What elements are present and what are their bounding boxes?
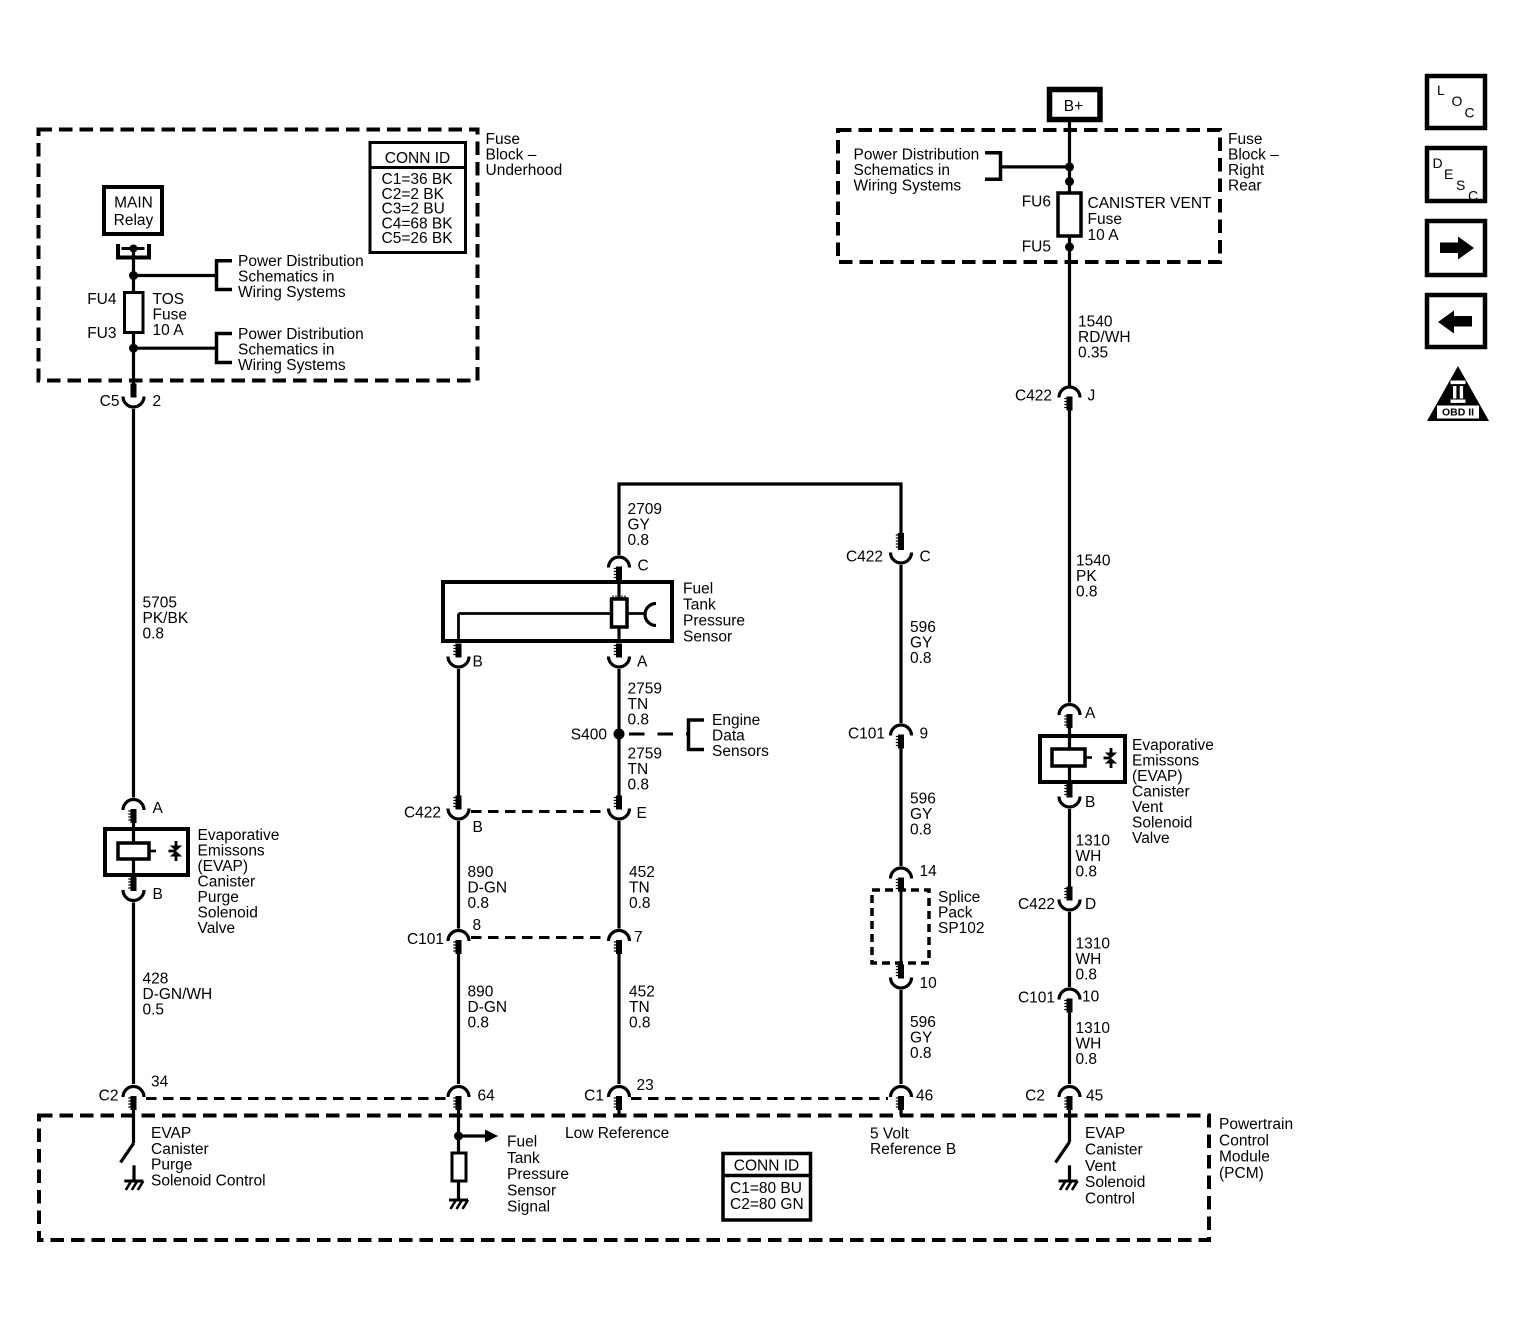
svg-text:Solenoid: Solenoid [1085, 1174, 1145, 1191]
svg-text:Block –: Block – [1228, 147, 1279, 164]
svg-text:(EVAP): (EVAP) [198, 858, 249, 875]
svg-text:EVAP: EVAP [1085, 1125, 1125, 1142]
svg-text:E: E [637, 805, 647, 822]
label: 1310 WH 0.8 (3) [1076, 1020, 1111, 1068]
wire: 23 into PCM (low reference) [617, 1110, 620, 1116]
svg-text:Emissons: Emissons [198, 843, 265, 860]
icon: forward arrow box [1427, 221, 1485, 275]
svg-text:C: C [920, 549, 931, 566]
svg-text:GY: GY [910, 806, 932, 823]
svg-text:Purge: Purge [151, 1157, 192, 1174]
relay contact symbol [118, 244, 149, 258]
svg-text:Wiring Systems: Wiring Systems [238, 284, 346, 301]
wire: 1540 PK (C422-J to vent solenoid A) [1068, 411, 1071, 703]
vent solenoid control driver switch [1056, 1110, 1070, 1181]
svg-text:C101: C101 [407, 931, 444, 948]
svg-text:Canister: Canister [1132, 784, 1190, 801]
ground - vent driver [1059, 1181, 1078, 1190]
svg-text:8: 8 [473, 917, 482, 934]
svg-text:GY: GY [910, 1030, 932, 1047]
svg-text:EVAP: EVAP [151, 1125, 191, 1142]
svg-text:0.8: 0.8 [910, 1045, 932, 1062]
svg-text:MAIN: MAIN [114, 195, 153, 212]
reference bracket 1 [217, 261, 233, 290]
wire: 1540 RD/WH (fuse to C422-J) [1068, 236, 1071, 386]
ground - sensor signal [449, 1200, 468, 1209]
svg-text:10 A: 10 A [1088, 227, 1120, 244]
svg-text:WH: WH [1076, 848, 1102, 865]
svg-text:C1: C1 [584, 1088, 604, 1105]
svg-text:Tank: Tank [507, 1150, 540, 1167]
wire: 890 D-GN (sensor B to C422-B) [457, 669, 460, 796]
svg-text:46: 46 [916, 1088, 933, 1105]
label: Engine Data Sensors [712, 712, 769, 760]
wire: relay to junction [132, 250, 135, 276]
svg-text:Evaporative: Evaporative [1132, 737, 1214, 754]
svg-text:0.8: 0.8 [143, 626, 165, 643]
svg-text:2759: 2759 [628, 681, 662, 698]
label: 2759 TN 0.8 (upper) [628, 681, 662, 729]
wire: junction to reference bracket 1 [134, 274, 217, 277]
icon: OBD II symbol [1427, 366, 1489, 421]
wire: 452 TN (C101-7 to PCM C1-23) [617, 954, 620, 1084]
ground - purge driver [124, 1181, 143, 1190]
svg-text:10: 10 [920, 975, 938, 992]
label: EVAP Canister Purge Solenoid Control [151, 1125, 266, 1189]
wire: 5705 PK/BK (C5 to purge solenoid A) [132, 409, 135, 798]
reference bracket 2 [217, 334, 233, 363]
svg-text:Fuel: Fuel [683, 581, 713, 598]
svg-text:(EVAP): (EVAP) [1132, 768, 1183, 785]
svg-text:SP102: SP102 [938, 920, 985, 937]
label: 1310 WH 0.8 (1) [1076, 833, 1111, 881]
svg-text:0.8: 0.8 [910, 650, 932, 667]
svg-text:C2=80 GN: C2=80 GN [730, 1196, 804, 1213]
svg-text:Vent: Vent [1132, 799, 1164, 816]
svg-text:Schematics in: Schematics in [238, 269, 334, 286]
svg-text:Wiring Systems: Wiring Systems [854, 178, 962, 195]
connector C422 pin B [404, 796, 483, 837]
connector C422 pin C [846, 533, 931, 566]
connector pin 10 - splice pack [891, 965, 938, 993]
svg-text:452: 452 [629, 864, 655, 881]
svg-text:B: B [473, 654, 483, 671]
svg-text:0.8: 0.8 [468, 895, 490, 912]
svg-text:PK: PK [1076, 568, 1097, 585]
wire: top run from sensor C up and across to C422-C [618, 483, 903, 556]
svg-text:Valve: Valve [198, 920, 236, 937]
svg-text:0.8: 0.8 [629, 1015, 651, 1032]
svg-text:Fuel: Fuel [507, 1134, 537, 1151]
wire: fuse to junction 2 [132, 333, 135, 349]
svg-text:D: D [1085, 896, 1096, 913]
dashed connector link C1: 23 to 46 [631, 1097, 888, 1100]
label: 890 D-GN 0.8 (upper) [468, 864, 508, 912]
junction node below FU5 [1065, 243, 1074, 252]
svg-text:Low Reference: Low Reference [565, 1125, 669, 1142]
wire: 596 GY (splice 10 to PCM 46) [899, 990, 902, 1084]
label: Fuse Block - Underhood [486, 131, 563, 179]
label: Fuel Tank Pressure Sensor Signal [507, 1134, 569, 1216]
junction node above FU4 [129, 271, 138, 280]
svg-text:5705: 5705 [143, 595, 177, 612]
label: 890 D-GN 0.8 (lower) [468, 984, 508, 1032]
svg-text:Wiring Systems: Wiring Systems [238, 357, 346, 374]
powertrain control module (dashed box) [39, 1116, 1209, 1241]
svg-text:Rear: Rear [1228, 178, 1262, 195]
connector C2 pin 34 (PCM) [99, 1074, 169, 1111]
svg-text:Sensors: Sensors [712, 743, 769, 760]
fuel tank pressure sensor box [443, 580, 672, 641]
svg-text:Control: Control [1085, 1191, 1135, 1208]
svg-text:C: C [638, 558, 649, 575]
dashed connector link C2: 34 to 64 [146, 1097, 446, 1100]
label: 2759 TN 0.8 (lower) [628, 746, 662, 794]
label: 1310 WH 0.8 (2) [1076, 936, 1111, 984]
svg-text:0.8: 0.8 [468, 1015, 490, 1032]
label: 5 Volt Reference B [870, 1126, 956, 1159]
wire: 2759 TN (sensor A to S400) [617, 669, 620, 734]
label: 452 TN 0.8 (upper) [629, 864, 655, 912]
splice S400 [571, 727, 625, 744]
svg-text:Fuse: Fuse [1228, 131, 1262, 148]
wire: 596 GY (C101-9 to splice pack 14) [899, 749, 902, 867]
svg-text:2: 2 [153, 393, 162, 410]
junction node - sensor signal [454, 1132, 463, 1141]
svg-text:S400: S400 [571, 727, 608, 744]
svg-text:64: 64 [478, 1088, 496, 1105]
svg-text:2759: 2759 [628, 746, 662, 763]
fuse CANISTER VENT 10A (FU6/FU5) [1022, 193, 1212, 256]
svg-text:Schematics in: Schematics in [238, 342, 334, 359]
label: 452 TN 0.8 (lower) [629, 984, 655, 1032]
svg-text:B: B [153, 886, 163, 903]
svg-text:596: 596 [910, 619, 936, 636]
svg-text:FU3: FU3 [87, 325, 116, 342]
svg-text:C5=26 BK: C5=26 BK [382, 230, 454, 247]
svg-text:TN: TN [629, 999, 650, 1016]
svg-text:0.8: 0.8 [1076, 1051, 1098, 1068]
svg-text:(PCM): (PCM) [1219, 1165, 1264, 1182]
svg-text:Tank: Tank [683, 597, 716, 614]
dashed connector link C422: B to E [471, 810, 607, 813]
label: Powertrain Control Module (PCM) [1219, 1116, 1293, 1182]
connector B - sensor output [448, 644, 483, 671]
svg-text:0.8: 0.8 [628, 532, 650, 549]
CONN ID table (underhood) [370, 143, 466, 253]
svg-text:Canister: Canister [198, 874, 256, 891]
svg-text:TN: TN [628, 761, 649, 778]
connector C1 pin 23 (PCM) [584, 1077, 654, 1110]
svg-text:Control: Control [1219, 1132, 1269, 1149]
svg-text:GY: GY [910, 635, 932, 652]
svg-text:Power Distribution: Power Distribution [854, 147, 980, 164]
icon: back arrow box [1427, 295, 1485, 347]
svg-text:C422: C422 [1018, 896, 1055, 913]
svg-text:Fuse: Fuse [1088, 211, 1122, 228]
connector C - fuel tank pressure sensor [609, 557, 649, 581]
EVAP canister vent solenoid valve [1040, 728, 1125, 782]
svg-text:Valve: Valve [1132, 830, 1170, 847]
connector B - purge solenoid [123, 877, 163, 903]
svg-text:TN: TN [628, 696, 649, 713]
label: Evaporative Emissons (EVAP) Canister Purge Solenoid Valve [198, 827, 280, 937]
svg-text:A: A [153, 800, 164, 817]
svg-text:E: E [1444, 166, 1453, 182]
svg-text:34: 34 [151, 1074, 169, 1091]
svg-text:1540: 1540 [1076, 553, 1111, 570]
wire: junction 2 to reference bracket 2 [134, 347, 217, 350]
svg-text:Power Distribution: Power Distribution [238, 326, 364, 343]
svg-text:Vent: Vent [1085, 1158, 1117, 1175]
fuse TOS 10A (FU4/FU3) [87, 291, 187, 342]
connector C5 pin 2 [100, 384, 161, 411]
label: 596 GY 0.8 (2) [910, 791, 936, 839]
svg-text:7: 7 [634, 929, 643, 946]
CONN ID table (PCM) [723, 1154, 811, 1221]
svg-text:0.8: 0.8 [1076, 967, 1098, 984]
svg-text:A: A [637, 654, 648, 671]
svg-text:C101: C101 [848, 726, 885, 743]
svg-text:2709: 2709 [628, 501, 662, 518]
wire: 2759 TN (S400 to C422-E) [617, 734, 620, 796]
purge solenoid control driver switch [121, 1110, 135, 1181]
svg-text:1540: 1540 [1078, 314, 1113, 331]
connector C422 pin D [1018, 887, 1096, 914]
wire: 1310 WH (vent B to C422-D) [1068, 809, 1071, 887]
svg-text:0.8: 0.8 [628, 712, 650, 729]
connector C2 pin 45 (PCM) [1025, 1087, 1103, 1111]
connector C101 pin 7 [609, 929, 643, 954]
svg-text:Splice: Splice [938, 889, 980, 906]
svg-text:Canister: Canister [1085, 1141, 1143, 1158]
connector C422 pin E [609, 796, 647, 823]
wire: 64 into PCM [457, 1110, 460, 1136]
svg-text:Underhood: Underhood [486, 162, 563, 179]
svg-text:890: 890 [468, 864, 494, 881]
svg-text:WH: WH [1076, 1036, 1102, 1053]
svg-text:A: A [1085, 705, 1096, 722]
svg-text:Relay: Relay [114, 212, 154, 229]
svg-text:L: L [1437, 82, 1445, 98]
connector pin 14 - splice pack [891, 863, 938, 892]
svg-text:Schematics in: Schematics in [854, 162, 950, 179]
svg-text:PK/BK: PK/BK [143, 610, 189, 627]
svg-text:23: 23 [637, 1077, 654, 1094]
svg-text:1310: 1310 [1076, 833, 1111, 850]
svg-text:C101: C101 [1018, 990, 1055, 1007]
svg-text:Power Distribution: Power Distribution [238, 253, 364, 270]
svg-text:Canister: Canister [151, 1141, 209, 1158]
svg-text:Module: Module [1219, 1149, 1270, 1166]
svg-text:Purge: Purge [198, 889, 239, 906]
svg-text:RD/WH: RD/WH [1078, 329, 1131, 346]
wire: 452 TN (C422-E to C101-7) [617, 821, 620, 929]
svg-text:9: 9 [920, 726, 929, 743]
reference bracket - right fuse block [985, 153, 1001, 180]
svg-text:Pressure: Pressure [507, 1166, 569, 1183]
label: 1540 PK 0.8 [1076, 553, 1111, 601]
svg-text:596: 596 [910, 791, 936, 808]
svg-text:596: 596 [910, 1014, 936, 1031]
wire: junction to fuse FU4 [132, 276, 135, 294]
label: EVAP Canister Vent Solenoid Control [1085, 1125, 1145, 1208]
svg-text:10: 10 [1082, 989, 1100, 1006]
svg-text:0.35: 0.35 [1078, 345, 1108, 362]
label: Evaporative Emissons (EVAP) Canister Vent Solenoid Valve [1132, 737, 1214, 847]
connector pin 64 (PCM C2) [448, 1087, 495, 1111]
svg-text:J: J [1088, 388, 1096, 405]
reference bracket - engine data sensors [689, 720, 705, 750]
connector A - vent solenoid [1059, 705, 1096, 729]
svg-text:Pack: Pack [938, 905, 973, 922]
svg-text:B: B [1085, 794, 1095, 811]
svg-text:890: 890 [468, 984, 494, 1001]
svg-text:FU6: FU6 [1022, 194, 1051, 211]
internal resistor - sensor signal pulldown [452, 1136, 466, 1200]
junction node above FU6 [1065, 177, 1074, 186]
label: Low Reference [565, 1125, 669, 1142]
svg-text:Solenoid Control: Solenoid Control [151, 1172, 266, 1189]
label: 2709 GY 0.8 [628, 501, 662, 549]
svg-text:1310: 1310 [1076, 1020, 1111, 1037]
svg-text:Right: Right [1228, 162, 1265, 179]
svg-text:CONN ID: CONN ID [734, 1158, 799, 1175]
svg-text:Emissons: Emissons [1132, 753, 1199, 770]
svg-text:OBD II: OBD II [1442, 407, 1474, 419]
svg-text:C: C [1465, 105, 1475, 121]
svg-text:Data: Data [712, 728, 745, 745]
svg-text:WH: WH [1076, 951, 1102, 968]
label: Fuse Block - Right Rear [1228, 131, 1279, 195]
wire: 1310 WH (C422-D to C101-10) [1068, 912, 1071, 987]
svg-text:CONN ID: CONN ID [385, 150, 450, 167]
svg-text:D-GN: D-GN [468, 880, 508, 897]
junction node at B+ trunk [1065, 162, 1074, 171]
label: Power Distribution Schematics in Wiring Systems (2) [238, 326, 364, 374]
svg-text:TOS: TOS [153, 291, 185, 308]
EVAP canister purge solenoid valve [105, 823, 188, 875]
wire: 46 into PCM (5 volt reference) [899, 1110, 902, 1116]
svg-text:452: 452 [629, 984, 655, 1001]
label: Power Distribution Schematics in Wiring Systems (right) [854, 147, 980, 195]
svg-text:0.8: 0.8 [910, 822, 932, 839]
svg-text:Pressure: Pressure [683, 613, 745, 630]
svg-text:FU4: FU4 [87, 291, 117, 308]
dashed connector link C101: 8 to 7 [471, 936, 607, 939]
svg-text:1310: 1310 [1076, 936, 1111, 953]
splice pack SP102 (dashed box) [872, 890, 929, 963]
label: 596 GY 0.8 (3) [910, 1014, 936, 1062]
svg-text:D: D [1433, 155, 1443, 171]
svg-text:Solenoid: Solenoid [198, 905, 258, 922]
svg-text:O: O [1452, 93, 1463, 109]
svg-text:C5: C5 [100, 393, 120, 410]
relay MAIN Relay box [104, 187, 162, 234]
svg-text:Evaporative: Evaporative [198, 827, 280, 844]
svg-text:428: 428 [143, 971, 169, 988]
label: 5705 PK/BK 0.8 [143, 595, 189, 643]
wire: 890 D-GN (C101-8 to PCM 64) [457, 954, 460, 1084]
wire: B+ down to fuse FU6 [1068, 120, 1071, 194]
icon: LOC box [1427, 76, 1485, 128]
junction node below FU3 [129, 344, 138, 353]
svg-text:D-GN/WH: D-GN/WH [143, 986, 213, 1003]
svg-text:45: 45 [1086, 1088, 1103, 1105]
svg-text:0.8: 0.8 [1076, 864, 1098, 881]
label: Power Distribution Schematics in Wiring Systems (1) [238, 253, 364, 301]
connector B - vent solenoid [1059, 784, 1095, 812]
svg-text:Signal: Signal [507, 1199, 550, 1216]
fuse block - underhood (dashed box) [39, 130, 478, 381]
svg-text:Sensor: Sensor [683, 629, 732, 646]
svg-text:Engine: Engine [712, 712, 760, 729]
svg-text:GY: GY [628, 517, 650, 534]
connector C422 pin J [1015, 387, 1095, 411]
label: 428 D-GN/WH 0.5 [143, 971, 213, 1019]
svg-text:Sensor: Sensor [507, 1182, 556, 1199]
wire: 890 D-GN (C422-B to C101-8) [457, 821, 460, 929]
label: Splice Pack SP102 [938, 889, 985, 937]
label: 596 GY 0.8 (1) [910, 619, 936, 667]
connector pin 46 (PCM C1) [891, 1087, 934, 1111]
svg-text:10 A: 10 A [153, 322, 185, 339]
svg-text:Reference B: Reference B [870, 1141, 956, 1158]
svg-text:S: S [1456, 177, 1465, 193]
label: Fuel Tank Pressure Sensor [683, 581, 745, 646]
svg-text:Solenoid: Solenoid [1132, 815, 1192, 832]
svg-text:5 Volt: 5 Volt [870, 1126, 909, 1143]
wire: 428 D-GN/WH (B to PCM C2-34) [132, 903, 135, 1085]
svg-text:TN: TN [629, 880, 650, 897]
svg-text:Block –: Block – [486, 147, 537, 164]
svg-text:C422: C422 [404, 805, 441, 822]
svg-text:0.8: 0.8 [1076, 584, 1098, 601]
svg-text:C422: C422 [846, 549, 883, 566]
connector C101 pin 8 [407, 917, 481, 954]
svg-text:C2: C2 [99, 1088, 119, 1105]
label: 1540 RD/WH 0.35 [1078, 314, 1131, 362]
fuse block - right rear (dashed box) [838, 130, 1220, 262]
svg-text:C422: C422 [1015, 388, 1052, 405]
signal arrow [459, 1130, 499, 1143]
svg-text:0.8: 0.8 [628, 777, 650, 794]
wire: junction 2 down to connector C5 [132, 348, 135, 384]
svg-text:C: C [1468, 188, 1478, 204]
svg-text:0.5: 0.5 [143, 1002, 165, 1019]
wire: 596 GY (C422-C to C101-9) [899, 565, 902, 723]
svg-text:0.8: 0.8 [629, 895, 651, 912]
svg-text:Powertrain: Powertrain [1219, 1116, 1293, 1133]
wire: bracket to B+ trunk [1001, 165, 1070, 168]
svg-text:D-GN: D-GN [468, 999, 508, 1016]
svg-text:CANISTER VENT: CANISTER VENT [1088, 195, 1213, 212]
connector A - sensor output [609, 644, 649, 671]
wire: 1310 WH (C101-10 to PCM C2-45) [1068, 1013, 1071, 1085]
dashed link: S400 to engine data sensors bracket [629, 733, 687, 736]
battery feed B+ [1050, 90, 1101, 120]
svg-text:B: B [473, 819, 483, 836]
svg-text:C2: C2 [1025, 1088, 1045, 1105]
svg-text:14: 14 [920, 863, 938, 880]
svg-text:B+: B+ [1064, 98, 1083, 115]
connector A - purge solenoid [123, 800, 164, 823]
connector C101 pin 10 [1018, 989, 1100, 1013]
connector C101 pin 9 [848, 725, 928, 748]
svg-text:Fuse: Fuse [153, 307, 187, 324]
svg-text:FU5: FU5 [1022, 239, 1051, 256]
svg-text:Fuse: Fuse [486, 131, 520, 148]
